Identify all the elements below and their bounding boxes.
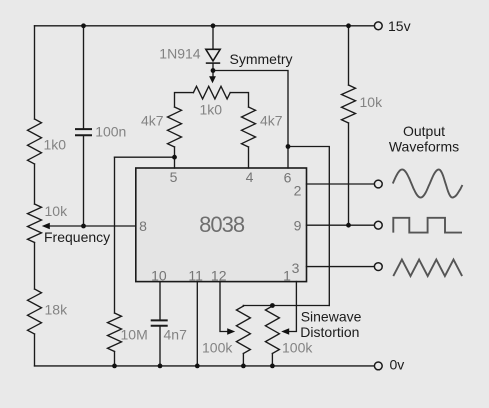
svg-text:3: 3 <box>292 260 300 276</box>
svg-text:9: 9 <box>294 218 302 234</box>
svg-text:10k: 10k <box>45 203 69 219</box>
svg-text:100k: 100k <box>202 340 233 356</box>
svg-text:100k: 100k <box>282 340 313 356</box>
svg-text:1N914: 1N914 <box>159 45 200 61</box>
svg-text:4k7: 4k7 <box>141 112 164 128</box>
svg-text:15v: 15v <box>388 18 411 34</box>
svg-text:Frequency: Frequency <box>44 229 110 245</box>
svg-text:18k: 18k <box>45 302 69 318</box>
svg-text:10: 10 <box>151 268 167 284</box>
svg-text:8038: 8038 <box>199 212 245 237</box>
svg-text:Symmetry: Symmetry <box>230 51 293 67</box>
svg-text:8: 8 <box>139 218 147 234</box>
svg-text:Distortion: Distortion <box>300 324 359 340</box>
svg-text:0v: 0v <box>390 357 405 373</box>
svg-text:10M: 10M <box>121 327 148 343</box>
svg-text:6: 6 <box>284 170 292 186</box>
svg-text:11: 11 <box>188 268 203 284</box>
svg-text:Waveforms: Waveforms <box>389 139 459 155</box>
svg-text:1k0: 1k0 <box>44 136 67 152</box>
svg-text:Output: Output <box>403 123 445 139</box>
svg-text:4k7: 4k7 <box>260 112 283 128</box>
svg-text:1k0: 1k0 <box>200 102 223 118</box>
svg-text:4n7: 4n7 <box>164 327 188 343</box>
svg-text:12: 12 <box>211 268 227 284</box>
svg-text:2: 2 <box>294 183 302 199</box>
svg-text:5: 5 <box>170 169 178 185</box>
svg-text:10k: 10k <box>360 94 384 110</box>
svg-text:1: 1 <box>283 268 291 284</box>
svg-text:4: 4 <box>246 169 254 185</box>
svg-text:100n: 100n <box>95 124 126 140</box>
svg-text:Sinewave: Sinewave <box>301 309 362 325</box>
